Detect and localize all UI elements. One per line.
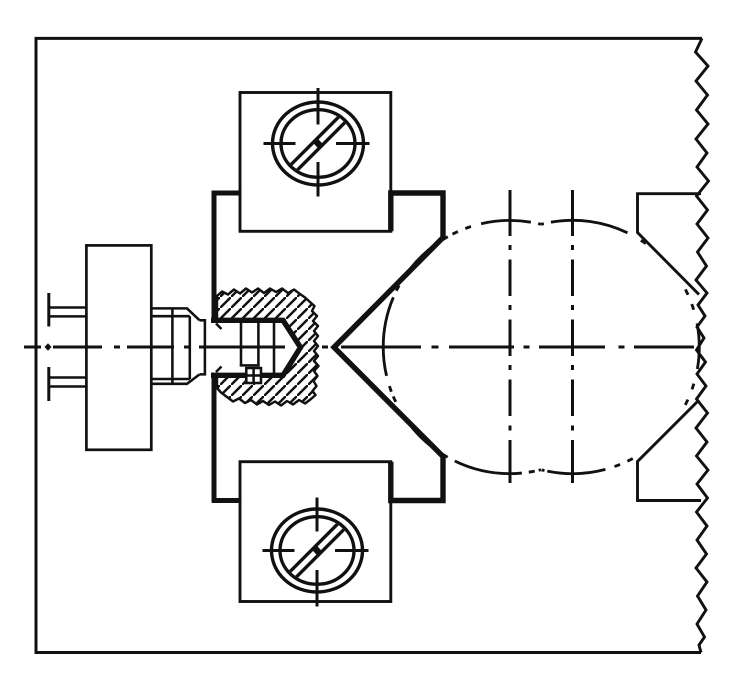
fixture stop block lower right: [638, 400, 702, 501]
cap screw lower: center diamond: [313, 546, 322, 556]
handle pin upper rod: [49, 308, 87, 317]
fixture plate border left: [35, 37, 38, 654]
handle pin lower cap: [47, 367, 50, 401]
clamp block lower: [240, 462, 391, 602]
cap screw upper: crosshair: [264, 88, 370, 197]
spindle collar line: [171, 308, 174, 383]
center line vertical (workpiece position 2): [571, 190, 574, 483]
set screw body line 1: [240, 323, 243, 367]
cap screw lower: inner circle: [280, 517, 354, 585]
clamp block upper: [240, 93, 391, 232]
set screw body line 2: [257, 323, 260, 367]
set screw body line 3 (cone base): [273, 323, 276, 373]
prism wall lower (thick): [212, 373, 217, 501]
thread-lock pellet: [246, 368, 261, 383]
pressure pad section (hatched blob): [217, 289, 319, 406]
center line horizontal (main axis): [24, 346, 694, 349]
cap screw upper: slot: [255, 81, 381, 207]
center line vertical (workpiece position 1): [509, 190, 512, 483]
prism bottom edge left stub (thick): [212, 498, 242, 503]
set screw bore top edge (thick): [211, 320, 301, 375]
cap screw lower: outer head circle: [272, 509, 363, 592]
spindle nose pilot: [200, 320, 205, 374]
center mark diamond on axis: [45, 343, 52, 351]
bore entry chamfer top: [216, 324, 222, 330]
handle pin lower rod: [49, 378, 87, 387]
fixture plate border top: [35, 37, 703, 40]
set screw bore (white channel): [210, 318, 301, 376]
spindle thread end face: [189, 316, 192, 379]
prism wall upper (thick): [212, 191, 217, 323]
cap screw lower: slot: [254, 488, 380, 614]
prism outline with V-notch (thick): [334, 193, 443, 501]
set screw body bottom line: [240, 364, 260, 367]
break line (zigzag right edge): [696, 38, 709, 652]
fixture stop block upper right: [638, 194, 702, 295]
spindle thread outer bottom with chamfer: [151, 374, 199, 383]
spindle thread core top: [151, 315, 190, 318]
fixture plate border bottom: [35, 651, 702, 654]
center line dash inside bore: [199, 346, 285, 349]
cap screw upper: center diamond: [314, 139, 323, 149]
spindle body (flange block): [86, 245, 151, 449]
cap screw upper: outer head circle: [273, 102, 364, 185]
bore entry chamfer bottom: [216, 367, 222, 373]
spindle thread outer top with chamfer: [151, 308, 199, 320]
spindle thread core bottom: [151, 378, 190, 381]
cap screw upper: inner circle: [281, 110, 355, 178]
handle pin upper cap: [47, 293, 50, 327]
workpiece circle position 2 (phantom line, right arc of union): [541, 220, 699, 473]
workpiece circle position 1 (phantom line, left arc of union): [383, 220, 541, 473]
cap screw lower: crosshair: [263, 498, 369, 607]
prism top edge left stub (thick): [212, 191, 242, 196]
